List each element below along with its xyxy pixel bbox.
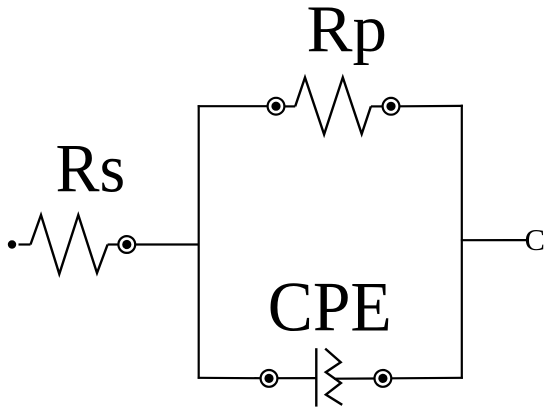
wire bottom rail right [391,377,463,380]
terminal T2 (circled dot, Rp left) [268,98,285,115]
terminal T3 (circled dot, Rp right) [383,98,400,115]
wire Rp to T3 [371,105,383,107]
CPE zigzag [325,349,342,405]
wire node B to OUT [461,239,526,241]
svg-text:Rp: Rp [307,0,388,66]
svg-text:CPE: CPE [268,269,392,347]
wire T1 to node A (left rail) [135,243,199,245]
resistor Rs [31,215,108,274]
terminal T4 (circled dot, CPE left) [261,370,278,387]
node IN terminal dot [8,240,16,248]
terminal T5 (circled dot, CPE right) [375,370,392,387]
CPE plate (vertical bar) [315,348,317,406]
wire right rail [461,105,463,379]
wire top rail left [198,105,267,107]
resistor Rp [295,77,371,134]
svg-text:C: C [525,223,545,257]
wire bottom rail left [198,377,261,380]
wire left rail [198,105,200,379]
terminal T1 (circled dot) [118,236,135,253]
wire IN to Rs [19,243,31,245]
svg-text:Rs: Rs [56,131,126,207]
wire Rs to terminal [108,243,119,245]
wire CPE to T5 [334,377,375,379]
wire T4 to CPE plate [277,377,316,379]
wire T2 to Rp [284,105,295,107]
wire top rail right [399,105,463,108]
